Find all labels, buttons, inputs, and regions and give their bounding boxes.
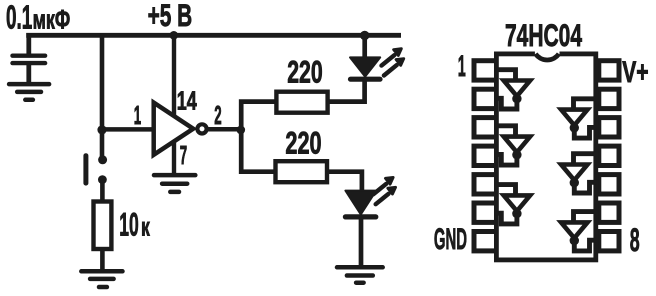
capacitor C 0.1uF lead upper xyxy=(26,33,31,56)
ground under pin 7 xyxy=(154,175,195,192)
svg-text:+5 В: +5 В xyxy=(148,0,193,33)
svg-text:GND: GND xyxy=(434,223,467,256)
inverter A triangle xyxy=(504,81,530,97)
svg-text:1: 1 xyxy=(134,102,141,130)
inverter B output wire (pin4) xyxy=(496,154,517,165)
inverter A output wire (pin2) xyxy=(496,98,517,109)
node +5V junction dot xyxy=(170,31,179,40)
inverter E output wire (pin10) xyxy=(574,182,597,193)
resistor 10k box xyxy=(94,202,112,250)
pin 14 box xyxy=(599,61,619,80)
svg-text:220: 220 xyxy=(285,125,321,161)
value label 10к xyxy=(119,207,150,243)
wire resistor top to LED1 xyxy=(329,79,365,102)
inverter B triangle xyxy=(504,137,530,153)
wire dropper from rail to input node xyxy=(100,35,105,160)
svg-text:V+: V+ xyxy=(622,56,648,89)
wire resistor bottom to LED2 xyxy=(328,172,362,192)
inverter E triangle xyxy=(561,165,587,181)
LED D2 light arrows xyxy=(373,177,395,204)
capacitor C lead lower xyxy=(26,63,31,84)
inverter D triangle xyxy=(561,110,587,126)
inverter E bubble xyxy=(570,178,579,187)
inverter F triangle xyxy=(561,222,587,238)
pin 12 box xyxy=(599,118,619,137)
pin 5 box xyxy=(474,175,497,194)
node output junction dot xyxy=(237,126,246,135)
pin 10 box xyxy=(599,175,619,194)
switch S1 contact dots xyxy=(98,155,107,164)
pin 3 box xyxy=(474,118,497,137)
pin 6 box xyxy=(474,203,497,222)
inverter F bubble xyxy=(570,236,579,245)
svg-text:1: 1 xyxy=(458,50,466,83)
svg-text:8: 8 xyxy=(630,222,640,258)
IC notch erase xyxy=(535,49,560,58)
inverter B bubble xyxy=(512,150,521,159)
inverter C input wire (pin5) xyxy=(497,185,516,197)
switch S1 lever xyxy=(83,156,88,183)
resistor 220 bottom box xyxy=(276,161,328,182)
svg-text:14: 14 xyxy=(177,88,198,116)
wire +5V dropper to pin14 xyxy=(172,35,176,116)
IC notch arc xyxy=(536,54,559,60)
node input junction dot xyxy=(97,125,106,134)
LED D1 light arrows xyxy=(382,49,404,76)
op-amp style inverter gate U1 triangle xyxy=(154,103,194,155)
svg-text:0.1: 0.1 xyxy=(6,0,32,35)
pin 11 box xyxy=(599,146,619,165)
inverter D bubble xyxy=(570,123,579,132)
inverter E input wire (pin11) xyxy=(574,154,597,166)
svg-text:мкФ: мкФ xyxy=(33,4,71,34)
capacitor C 0.1uF plates xyxy=(13,56,46,63)
inverter F input wire (pin9) xyxy=(574,212,597,224)
svg-text:10: 10 xyxy=(119,207,139,243)
inverter C bubble xyxy=(512,209,521,218)
LED D1 cathode bar xyxy=(351,77,381,82)
LED D1 triangle xyxy=(350,57,380,76)
inverter D input wire (pin13) xyxy=(574,99,597,111)
svg-text:74HC04: 74HC04 xyxy=(505,17,582,53)
inverter A bubble xyxy=(512,94,521,103)
inverter A input wire (pin1) xyxy=(497,70,516,82)
LED D2 triangle xyxy=(345,191,376,215)
inverter C triangle xyxy=(504,195,530,211)
resistor 220 top box xyxy=(276,92,327,113)
value label 0.1мкФ xyxy=(6,0,70,35)
pin 7 box xyxy=(474,232,497,251)
IC body xyxy=(496,54,595,260)
inverter B input wire (pin3) xyxy=(497,126,516,138)
pin 13 box xyxy=(599,89,619,108)
svg-text:220: 220 xyxy=(287,54,323,90)
wire switch to resistor 10k xyxy=(100,180,105,200)
svg-text:7: 7 xyxy=(180,142,187,170)
wire resistor 10k to ground xyxy=(100,251,105,271)
wire branch 1 up to resistor R 220 top xyxy=(241,102,275,130)
pin 8 box xyxy=(599,232,619,251)
pin 9 box xyxy=(599,203,619,222)
wire gate input xyxy=(102,127,154,132)
svg-text:2: 2 xyxy=(214,102,221,130)
pin 1 box xyxy=(474,61,497,80)
pin 4 box xyxy=(474,146,497,165)
inverter F output wire (pin8) xyxy=(574,240,597,251)
ground under LED2 xyxy=(337,267,383,282)
label +5 В xyxy=(148,0,193,33)
ground under resistor 10k xyxy=(81,271,122,287)
wire pin7 to ground xyxy=(172,141,176,175)
inverter C output wire (pin6) xyxy=(496,213,517,224)
wire LED1 anode to rail xyxy=(362,35,367,58)
wire +5V top rail xyxy=(26,33,401,38)
node LED1 rail junction dot xyxy=(360,31,369,40)
wire gate output xyxy=(206,127,240,132)
svg-text:к: к xyxy=(141,212,150,242)
pin 2 box xyxy=(474,89,497,108)
wire LED2 cathode to ground xyxy=(359,217,364,267)
ground under capacitor xyxy=(9,84,49,100)
inverter D output wire (pin12) xyxy=(574,127,597,138)
wire branch 2 down to resistor R 220 bottom xyxy=(241,130,274,172)
LED D2 cathode bar xyxy=(345,214,375,219)
inverter bubble xyxy=(197,124,206,133)
